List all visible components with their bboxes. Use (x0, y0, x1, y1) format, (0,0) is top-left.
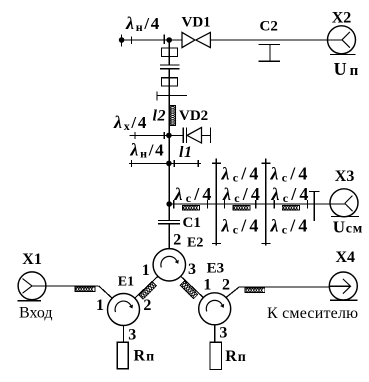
wire main vertical upper segment (168, 40, 170, 65)
circulator E3 arrow (206, 300, 222, 311)
divider line 1 vertical (215, 158, 217, 245)
svg-text:2: 2 (143, 297, 151, 314)
connector X1 circle (18, 272, 46, 300)
circulator E3 circle (199, 293, 231, 325)
microstrip hatched segment output (245, 288, 265, 292)
connector X1 branch upper (23, 279, 33, 286)
svg-text:X1: X1 (22, 251, 42, 268)
diode VD1 right triangle (196, 32, 211, 47)
svg-text:λс/4: λс/4 (270, 163, 311, 184)
divider 2 bottom tick (261, 242, 270, 244)
connector X2 branch upper (342, 32, 350, 40)
capacitor C2 stem (269, 44, 271, 61)
connector X2 underline (330, 53, 356, 55)
svg-text:Вход: Вход (19, 305, 53, 322)
connector X4 circle (329, 272, 357, 300)
divider 3 top cap (309, 190, 319, 192)
svg-text:λс/4: λс/4 (270, 216, 311, 237)
tick mark lambda-n/4 left (131, 37, 133, 45)
connector X4 arrowhead (343, 279, 351, 294)
divider 2 top tick (261, 162, 270, 164)
connector X2 branch lower (342, 40, 350, 48)
capacitor C1 plate 1 (158, 219, 180, 221)
divider 1 bottom tick (212, 242, 221, 244)
wire lambda-c/4 main horizontal line (169, 203, 345, 205)
resistor Rp load of E1 (117, 342, 128, 368)
varactor VD2 plate bar 1 (182, 127, 184, 143)
svg-text:Uп: Uп (334, 59, 361, 79)
capacitor in bias line plate 1 (160, 64, 180, 66)
connector X3 circle (330, 189, 358, 217)
connector X3 underline (331, 216, 359, 218)
svg-text:E1: E1 (118, 275, 134, 290)
svg-text:C2: C2 (260, 19, 278, 35)
capacitor in bias line plate 2 (160, 68, 180, 70)
svg-text:X4: X4 (336, 249, 356, 266)
circulator E1 arrowhead (129, 304, 133, 308)
circulator E2 circle (153, 249, 185, 281)
wire E3 to X4 horizontal (239, 286, 329, 288)
connector X1 branch lower (23, 286, 33, 293)
stub line horizontal with short-circuit bar (157, 95, 187, 97)
wire C1 to E2 (168, 224, 170, 249)
varactor VD2 end bar (209, 127, 211, 143)
svg-text:λн/4: λн/4 (125, 13, 161, 34)
connector X3 branch upper (345, 196, 353, 204)
tick mark c3 (223, 200, 225, 208)
node left end tick (121, 35, 123, 47)
divider line 2 vertical (265, 158, 267, 245)
svg-text:X3: X3 (335, 168, 355, 185)
tick mark lambda-x right (163, 132, 165, 139)
choke element rectangle 1 (161, 48, 177, 56)
svg-text:1: 1 (203, 277, 211, 294)
svg-text:λс/4: λс/4 (222, 184, 263, 205)
microstrip hatched segment input (75, 287, 95, 292)
svg-text:Rп: Rп (225, 348, 247, 365)
tick mark c5 (273, 200, 275, 208)
divider line 3 vertical (313, 191, 315, 221)
junction dot left end (119, 37, 125, 43)
svg-text:E2: E2 (187, 236, 203, 251)
diode VD1 left triangle (182, 32, 195, 47)
svg-text:C1: C1 (183, 215, 201, 231)
tick mark lambda-n/4 right (163, 35, 165, 45)
svg-text:2: 2 (173, 231, 181, 248)
microstrip hatched segment 2 (233, 206, 250, 211)
microstrip hatched segment 1 (182, 206, 199, 211)
tick mark lambda-x left (134, 132, 136, 139)
svg-text:VD1: VD1 (182, 15, 211, 31)
wire E3 port3 (214, 325, 216, 343)
svg-text:3: 3 (219, 324, 227, 341)
tick mark c6 (306, 200, 308, 208)
svg-text:λн/4: λн/4 (129, 140, 165, 161)
svg-text:Uсм: Uсм (333, 217, 363, 236)
divider 1 top tick (212, 162, 221, 164)
varactor VD2 triangle (187, 127, 202, 143)
circulator E1 circle (108, 294, 140, 326)
svg-text:К смесителю: К смесителю (267, 305, 358, 322)
circulator E3 arrowhead (220, 304, 224, 308)
connector X4 underline (330, 299, 357, 301)
wire X1-E1 diagonal (99, 286, 113, 298)
junction dot node VD2 (166, 133, 172, 139)
varactor VD2 plate bar 2 (186, 127, 188, 143)
tick mark l1 mid (173, 160, 175, 167)
junction dot node l1 (166, 161, 172, 167)
capacitor C2 bottom plate (258, 60, 280, 62)
connector X1 underline (18, 300, 42, 302)
junction dot node lambda-c (166, 201, 172, 207)
tick mark c1 (173, 200, 175, 208)
tick mark l1 left (131, 160, 133, 167)
wire diagonal E1 to E2 (135, 276, 158, 298)
wire VD1 to X2 (210, 39, 342, 41)
svg-text:λс/4: λс/4 (271, 184, 312, 205)
microstrip l2 hatched segment (170, 106, 176, 126)
svg-text:λс/4: λс/4 (221, 163, 262, 184)
stub short-circuit end bar (156, 91, 158, 100)
capacitor C1 plate 2 (158, 223, 180, 225)
tick mark c2 (207, 200, 209, 208)
microstrip hatched band E1-E2 (139, 282, 157, 300)
svg-text:λс/4: λс/4 (221, 216, 262, 237)
connector X3 branch lower (345, 203, 353, 211)
svg-text:λс/4: λс/4 (174, 184, 215, 205)
wire lambda-x/4 horizontal (130, 134, 184, 136)
wire VD2 to end bar (202, 134, 211, 136)
wire E1 port3 (123, 326, 125, 343)
svg-text:E3: E3 (207, 260, 225, 276)
svg-text:Rп: Rп (134, 348, 156, 365)
svg-text:1: 1 (96, 297, 104, 314)
junction dot main node top (166, 37, 172, 43)
wire X1 to E1 horizontal (32, 285, 99, 287)
svg-text:l1: l1 (179, 144, 192, 161)
wire top horizontal lambda-n/4 line (122, 39, 182, 41)
resistor Rp load of E3 (210, 342, 222, 369)
svg-text:3: 3 (128, 327, 136, 344)
svg-text:3: 3 (188, 261, 196, 278)
connector X4 arrow shaft (329, 285, 350, 287)
wire main vertical middle segment (168, 69, 170, 221)
choke element rectangle 2 (161, 78, 177, 86)
svg-text:λх/4: λх/4 (113, 112, 148, 133)
tick mark c4 (255, 200, 257, 208)
circulator E2 arrowhead (175, 260, 179, 264)
svg-text:2: 2 (222, 277, 230, 294)
svg-text:l2: l2 (153, 108, 166, 125)
circulator E1 arrow (115, 301, 131, 312)
capacitor C2 top plate (258, 43, 280, 45)
microstrip hatched segment 3 (282, 206, 299, 211)
svg-text:1: 1 (142, 262, 150, 279)
svg-text:VD2: VD2 (179, 108, 208, 124)
svg-text:X2: X2 (332, 9, 352, 26)
connector X2 circle (328, 26, 356, 54)
tick mark l1 right (197, 160, 199, 167)
microstrip hatched band E2-E3 (180, 281, 198, 299)
circulator E2 arrow (161, 256, 177, 267)
wire lambda-n/4 middle horizontal l1 (129, 162, 201, 164)
wire diagonal E2 to E3 (181, 276, 204, 297)
wire E3 port2 diagonal (226, 287, 239, 298)
